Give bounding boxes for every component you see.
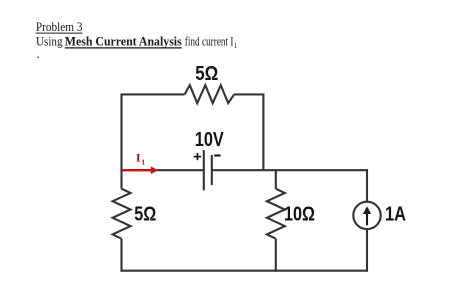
title underline xyxy=(36,32,83,34)
svg-text:Problem 3: Problem 3 xyxy=(36,19,83,34)
voltage source 10V battery: short negative plate xyxy=(211,155,213,185)
svg-text:find current I: find current I xyxy=(185,35,234,49)
wire: 10Ω branch upper stub xyxy=(275,169,277,189)
svg-text:10V: 10V xyxy=(195,129,225,151)
wire: left rail top segment + top wire left of resistor xyxy=(122,94,185,188)
svg-text:Mesh Current Analysis: Mesh Current Analysis xyxy=(65,35,182,49)
resistor 5Ω (top, horizontal zigzag) xyxy=(185,85,235,103)
svg-text:1: 1 xyxy=(234,42,238,50)
current source 1A: circle xyxy=(353,202,380,229)
svg-text:5Ω: 5Ω xyxy=(134,203,156,225)
svg-text:10Ω: 10Ω xyxy=(284,204,315,226)
underline of "Mesh Current Analysis" xyxy=(65,47,182,49)
label I1 (red, bold serif) xyxy=(136,152,146,166)
current arrow I1 (red) xyxy=(123,166,159,174)
wire: top wire right of resistor + right side of top loop down to middle wire xyxy=(234,94,263,171)
svg-text:I: I xyxy=(136,152,141,164)
resistor 10Ω (middle, vertical zigzag) xyxy=(267,189,285,239)
wire: bottom horizontal rail xyxy=(121,270,369,272)
voltage source 10V battery: plus sign xyxy=(194,153,202,160)
wire: middle horizontal, right of battery to current source branch xyxy=(212,169,368,171)
svg-text:1: 1 xyxy=(142,158,146,166)
wire: left rail bottom segment xyxy=(120,239,122,272)
current source 1A: internal up arrow xyxy=(363,206,371,225)
svg-text:1A: 1A xyxy=(385,204,406,226)
resistor 5Ω (left, vertical zigzag) xyxy=(113,189,131,239)
svg-text:.: . xyxy=(37,47,40,61)
wire: current source branch lower stub xyxy=(366,229,368,271)
svg-text:5Ω: 5Ω xyxy=(195,63,218,85)
wire: 10Ω branch lower stub xyxy=(275,239,277,272)
svg-text:Using: Using xyxy=(36,35,63,49)
voltage source 10V battery: minus sign xyxy=(214,154,220,156)
wire: middle horizontal, left of battery (node A run) xyxy=(122,169,204,171)
voltage source 10V battery: long positive plate xyxy=(203,150,205,190)
wire: current source branch upper stub xyxy=(366,169,368,201)
